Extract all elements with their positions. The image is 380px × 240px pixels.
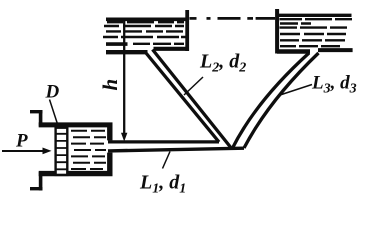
right tank water hatch row 6 bbox=[280, 45, 340, 47]
P force arrow bbox=[2, 150, 44, 152]
pipe L3 upper edge bbox=[232, 53, 309, 149]
cylinder top wall bbox=[39, 122, 113, 127]
left tank water hatch row 2 bbox=[104, 25, 184, 27]
right tank left wall bbox=[275, 9, 279, 54]
left tank bottom left segment bbox=[106, 50, 148, 54]
right tank water hatch row 4 bbox=[280, 33, 346, 35]
left tank bottom right segment bbox=[154, 47, 190, 51]
cylinder bottom wall bbox=[39, 171, 113, 176]
right tank water hatch row 1 bbox=[280, 19, 353, 46]
L1 label leader bbox=[163, 152, 171, 169]
left tank water hatch row 3 bbox=[106, 30, 183, 32]
svg-text:h: h bbox=[98, 79, 122, 91]
left tank water hatch row 1 bbox=[103, 22, 186, 44]
L3 label leader bbox=[280, 85, 312, 96]
left tank thick left dash bbox=[106, 42, 128, 46]
svg-text:L3, d3: L3, d3 bbox=[311, 73, 357, 97]
L2 label leader bbox=[184, 77, 203, 95]
right tank water hatch row 5 bbox=[280, 39, 345, 41]
svg-text:D: D bbox=[45, 82, 60, 103]
cylinder top flange foot bbox=[30, 110, 43, 113]
svg-text:P: P bbox=[15, 131, 28, 152]
left tank water hatch row 5 dashes bbox=[133, 43, 184, 45]
h dimension line bbox=[123, 21, 125, 135]
pipe L3 lower edge bbox=[244, 53, 319, 148]
cylinder right wall upper part bbox=[107, 124, 112, 140]
cylinder bottom flange vertical bbox=[39, 172, 43, 191]
cylinder chamber liquid hatch bbox=[71, 131, 106, 169]
left tank surface line bbox=[106, 17, 189, 21]
left tank water hatch row 4 bbox=[103, 36, 186, 38]
left tank right wall bbox=[185, 10, 189, 51]
right tank bottom right segment bbox=[318, 48, 353, 52]
piston bbox=[56, 128, 68, 175]
svg-text:L2, d2: L2, d2 bbox=[199, 51, 246, 76]
right tank surface line bbox=[279, 14, 352, 17]
pipe L1 bottom edge bbox=[108, 148, 244, 151]
D leader line bbox=[50, 100, 58, 125]
pipe L1 top edge bbox=[108, 140, 219, 143]
free-surface dash-dot centerline bbox=[190, 17, 276, 20]
pipe L2 upper edge bbox=[146, 53, 219, 142]
cylinder right wall lower part bbox=[107, 153, 112, 175]
cylinder bottom flange foot bbox=[30, 187, 43, 190]
pipe L2 lower edge bbox=[153, 50, 233, 150]
right tank water hatch row 3 bbox=[280, 26, 348, 28]
h arrowhead bbox=[121, 133, 127, 142]
svg-text:L1, d1: L1, d1 bbox=[139, 172, 186, 197]
right tank water hatch row 2 bbox=[280, 22, 311, 24]
cylinder top flange vertical bbox=[39, 110, 43, 127]
right tank bottom left segment bbox=[277, 49, 310, 53]
piston hatch lines bbox=[55, 134, 69, 170]
